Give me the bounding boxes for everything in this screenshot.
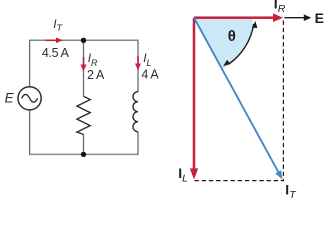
arrow IT current [46, 38, 63, 44]
svg-text:θ: θ [228, 28, 236, 45]
wire inductor branch upper [137, 40, 139, 92]
phasor E axis arrow [284, 14, 311, 21]
wire resistor branch lower [83, 134, 85, 154]
svg-text:2 A: 2 A [87, 68, 105, 82]
source E [18, 87, 41, 110]
phasor IL arrow [190, 18, 198, 180]
node bottom junction [81, 152, 86, 157]
phasor IR arrow [194, 13, 283, 22]
dashed vertical line [282, 21, 284, 182]
wire bottom [30, 153, 138, 155]
wedge theta shading [194, 18, 253, 70]
arc arrowhead top [252, 21, 257, 28]
dashed horizontal line [195, 180, 285, 182]
arc arrowhead bottom [223, 60, 230, 66]
arrow IR current [81, 57, 87, 72]
resistor R [77, 96, 90, 134]
svg-text:E: E [315, 10, 324, 26]
svg-text:E: E [5, 90, 15, 105]
angle arc theta [229, 24, 254, 64]
wire resistor branch upper [83, 40, 85, 96]
phasor IT arrow [194, 18, 282, 180]
inductor L [133, 92, 138, 132]
wire left upper [29, 40, 31, 87]
wire inductor branch lower [137, 132, 139, 155]
svg-text:4 A: 4 A [141, 68, 159, 82]
wire top [30, 39, 138, 41]
wire left lower [29, 110, 31, 155]
svg-text:4.5 A: 4.5 A [42, 46, 70, 60]
arrow IL current [135, 56, 141, 71]
node top junction [81, 38, 86, 43]
